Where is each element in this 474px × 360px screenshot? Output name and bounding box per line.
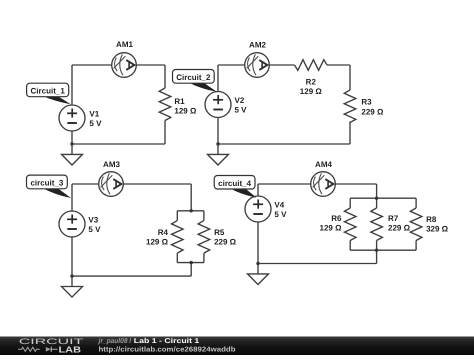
svg-text:V3: V3 [88,215,98,224]
svg-text:R3: R3 [361,98,372,107]
svg-text:V4: V4 [274,200,284,209]
svg-text:jr_paul08: jr_paul08 [98,337,128,345]
svg-text:229 Ω: 229 Ω [388,224,411,233]
svg-text:R8: R8 [426,215,437,224]
svg-text:R4: R4 [158,228,169,237]
svg-text:Lab 1 - Circuit 1: Lab 1 - Circuit 1 [134,337,200,345]
svg-text:R6: R6 [331,214,342,223]
svg-text:129 Ω: 129 Ω [300,87,323,96]
svg-text:AM3: AM3 [103,160,120,169]
svg-text:5 V: 5 V [235,106,248,115]
svg-text:5 V: 5 V [274,210,287,219]
svg-text:R2: R2 [306,77,317,86]
svg-text:LAB: LAB [59,344,82,354]
svg-text:129 Ω: 129 Ω [146,238,169,247]
svg-text:329 Ω: 329 Ω [426,225,449,234]
svg-text:http://circuitlab.com/ce268924: http://circuitlab.com/ce268924waddb [99,345,236,353]
svg-text:Circuit_2: Circuit_2 [176,73,211,82]
svg-text:V1: V1 [89,109,99,118]
svg-text:Circuit_1: Circuit_1 [31,87,66,96]
svg-text:AM2: AM2 [249,40,266,49]
svg-text:129 Ω: 129 Ω [174,107,197,116]
svg-text:R7: R7 [388,214,399,223]
svg-text:5 V: 5 V [88,225,101,234]
svg-text:5 V: 5 V [89,119,102,128]
svg-text:circuit_3: circuit_3 [30,179,63,188]
svg-text:129 Ω: 129 Ω [320,224,343,233]
svg-text:229 Ω: 229 Ω [214,238,237,247]
svg-text:circuit_4: circuit_4 [218,179,251,188]
svg-text:R5: R5 [214,228,225,237]
svg-text:AM4: AM4 [315,160,332,169]
svg-text:/: / [129,337,131,345]
svg-text:229 Ω: 229 Ω [361,107,384,116]
svg-text:AM1: AM1 [116,40,133,49]
svg-text:V2: V2 [235,96,245,105]
svg-text:R1: R1 [174,97,185,106]
